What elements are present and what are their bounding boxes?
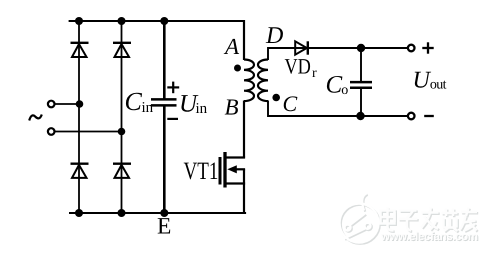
wire primary top	[243, 20, 245, 60]
capacitor Cin plates	[151, 99, 177, 105]
transformer primary winding	[244, 60, 254, 102]
wire left bridge leg	[78, 21, 80, 213]
svg-text:VT1: VT1	[184, 158, 219, 185]
diode VD2 top-right	[113, 43, 131, 57]
node top rail left	[75, 17, 83, 25]
svg-text:C: C	[125, 87, 143, 116]
wire drain vertical	[243, 101, 245, 158]
wire bottom rail	[69, 212, 246, 214]
minus sign output	[424, 115, 434, 117]
diode VDr triangle	[295, 41, 307, 54]
phase dot secondary	[272, 94, 280, 102]
wire top rail	[69, 20, 245, 22]
node bottom rail left	[75, 209, 83, 217]
diode VDr cathode bar	[307, 41, 309, 54]
node AC lower junction	[118, 128, 126, 136]
wire AC lower lead	[55, 131, 122, 133]
svg-text:E: E	[157, 214, 171, 240]
AC terminal lower	[48, 128, 55, 135]
output terminal minus	[408, 113, 415, 120]
mosfet body arrow	[227, 165, 237, 173]
watermark chinese text	[381, 208, 479, 233]
wire source vertical	[243, 169, 245, 214]
wire DC bus upper segment	[163, 21, 166, 99]
diode VD4 bottom-right	[113, 164, 131, 178]
mosfet VT1 gate bar	[219, 157, 222, 185]
svg-text:in: in	[142, 100, 154, 116]
svg-text:out: out	[430, 78, 447, 93]
wire drain stub	[227, 156, 246, 158]
svg-text:C: C	[283, 91, 298, 116]
watermark logo circle	[340, 194, 380, 244]
capacitor Co plates	[350, 82, 372, 88]
mosfet VT1 channel bar	[223, 152, 226, 188]
minus sign Cin	[167, 118, 178, 120]
svg-text:o: o	[341, 83, 348, 98]
wire secondary top	[268, 48, 408, 60]
wire DC bus lower segment	[163, 106, 166, 213]
node Co top	[357, 44, 365, 52]
node top rail bus	[160, 17, 168, 25]
svg-text:r: r	[312, 66, 317, 81]
diode VD1 top-left	[71, 43, 89, 57]
wire right bridge leg	[121, 21, 123, 213]
svg-text:www.elecfans.com: www.elecfans.com	[380, 231, 478, 243]
AC terminal upper	[48, 101, 55, 108]
svg-text:C: C	[326, 72, 343, 99]
plus sign Cin	[167, 82, 179, 94]
svg-text:D: D	[265, 23, 283, 49]
wire secondary bottom	[268, 101, 408, 117]
node bottom rail mid	[118, 209, 126, 217]
node bottom rail bus	[160, 209, 168, 217]
wire AC upper lead	[55, 103, 80, 105]
svg-text:B: B	[225, 94, 239, 119]
diode VD3 bottom-left	[71, 164, 89, 178]
node top rail mid	[118, 17, 126, 25]
node AC upper junction	[76, 100, 84, 108]
wire body stub	[236, 168, 245, 170]
plus sign output	[422, 42, 433, 53]
svg-text:in: in	[196, 101, 208, 117]
wire source stub	[227, 182, 246, 184]
capacitor Co top lead	[360, 48, 362, 81]
svg-text:U: U	[413, 68, 432, 94]
svg-text:A: A	[223, 34, 240, 59]
svg-text:VD: VD	[285, 53, 311, 78]
capacitor Co bottom lead	[360, 89, 362, 116]
node Co bottom	[356, 112, 364, 120]
transformer secondary winding	[258, 60, 268, 102]
phase dot primary	[234, 65, 241, 72]
output terminal plus	[408, 45, 415, 52]
AC source tilde	[29, 115, 42, 121]
